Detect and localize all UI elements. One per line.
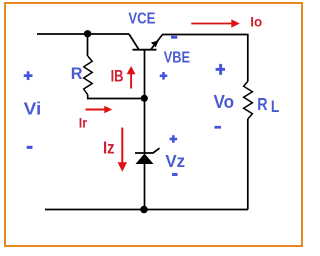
svg-text:Ir: Ir <box>79 116 88 131</box>
svg-text:L: L <box>271 98 279 116</box>
svg-text:VCE: VCE <box>128 11 155 28</box>
svg-text:Vz: Vz <box>165 151 185 171</box>
svg-text:VBE: VBE <box>164 49 191 66</box>
svg-text:Io: Io <box>250 14 262 30</box>
svg-text:R: R <box>71 65 83 83</box>
svg-text:Iz: Iz <box>103 138 115 158</box>
svg-text:Vi: Vi <box>24 99 42 119</box>
svg-text:R: R <box>257 94 267 114</box>
svg-text:Vo: Vo <box>214 91 235 112</box>
svg-text:IB: IB <box>111 67 124 86</box>
